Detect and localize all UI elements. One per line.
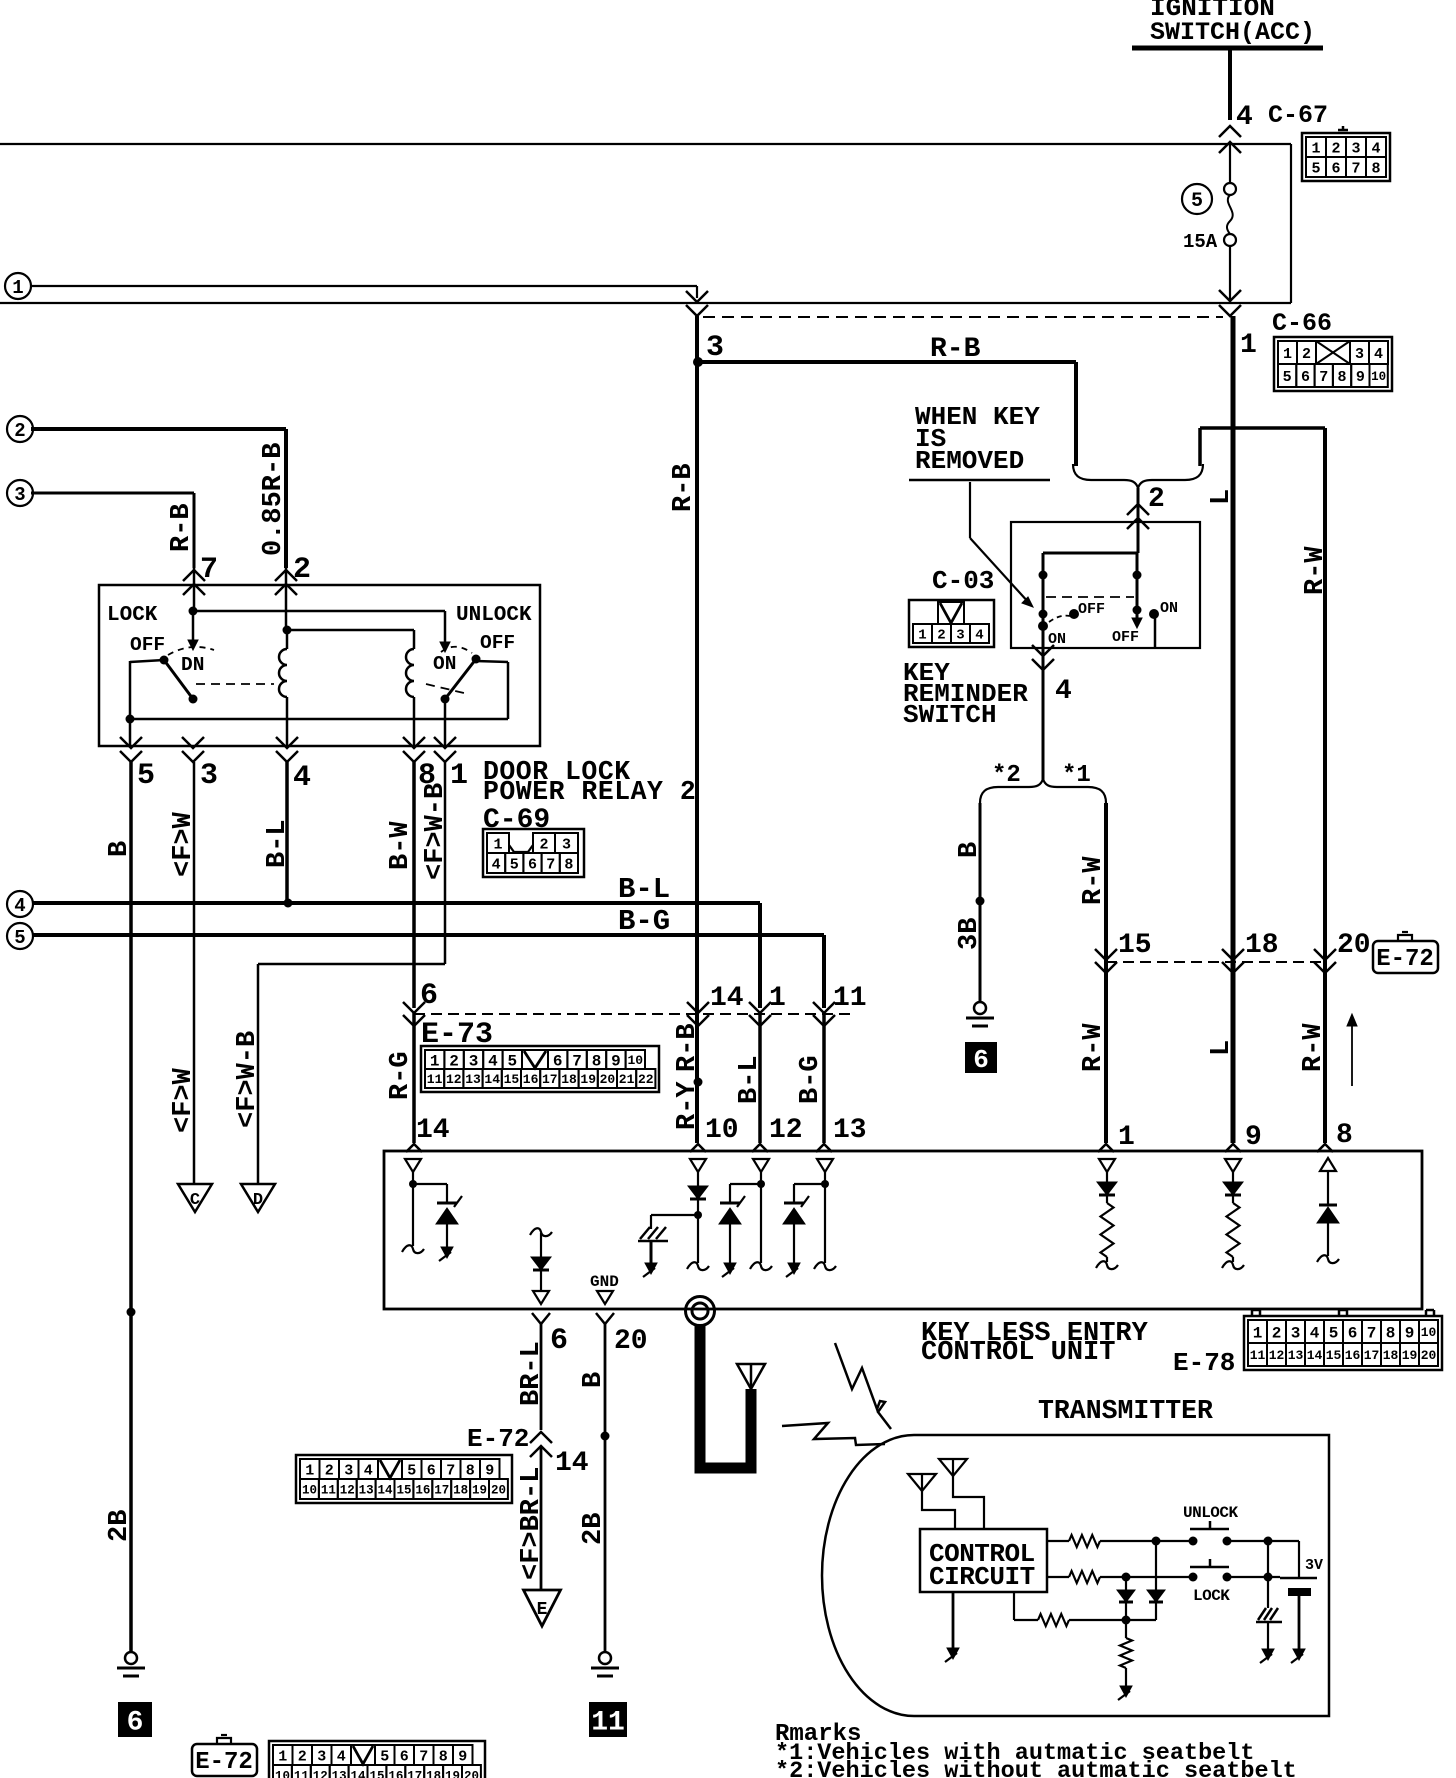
- svg-text:5: 5: [137, 759, 155, 793]
- svg-text:4: 4: [1310, 1324, 1320, 1342]
- svg-text:13: 13: [332, 1770, 347, 1778]
- svg-text:2: 2: [1302, 346, 1311, 363]
- pin 3 of relay: [182, 737, 218, 793]
- pin 14 of connector E-73: [687, 983, 744, 1026]
- svg-text:18: 18: [561, 1072, 577, 1087]
- svg-text:5: 5: [380, 1748, 389, 1765]
- svg-text:6: 6: [1331, 160, 1340, 177]
- destination arrow D: [241, 1184, 275, 1212]
- svg-text:8: 8: [1386, 1324, 1396, 1342]
- svg-text:14: 14: [1307, 1348, 1323, 1363]
- node junction pin14 internal: [409, 1180, 417, 1188]
- pin 1 of relay: [434, 737, 468, 793]
- label UNLOCK: [456, 604, 532, 627]
- svg-text:11: 11: [591, 1708, 625, 1739]
- svg-text:14: 14: [555, 1448, 589, 1479]
- svg-text:4: 4: [14, 895, 25, 917]
- pin 6 of control unit: [532, 1313, 568, 1358]
- control unit pin 12 input terminal: [750, 1159, 772, 1270]
- svg-text:9: 9: [1245, 1122, 1262, 1153]
- svg-text:3V: 3V: [1305, 1557, 1323, 1574]
- node circled 3 wire origin: [7, 480, 33, 506]
- svg-text:6: 6: [550, 1324, 568, 1358]
- svg-text:11: 11: [833, 983, 867, 1014]
- svg-text:13: 13: [465, 1072, 481, 1087]
- svg-text:B: B: [579, 1372, 609, 1388]
- svg-text:6: 6: [127, 1708, 144, 1739]
- wire fuse output to C-66 pin 1: [1219, 290, 1241, 316]
- svg-text:17: 17: [542, 1072, 558, 1087]
- node circled 4 wire origin: [7, 891, 33, 917]
- svg-text:E-72: E-72: [195, 1749, 253, 1776]
- diode output to pin 6: [530, 1228, 552, 1304]
- brace joining wires at key reminder pin 2: [1073, 464, 1203, 488]
- svg-text:14: 14: [710, 983, 744, 1014]
- svg-text:E-72: E-72: [1376, 946, 1434, 973]
- relay unlock switch: [433, 632, 515, 746]
- svg-text:OFF: OFF: [1078, 601, 1105, 618]
- svg-text:15: 15: [369, 1770, 384, 1778]
- wire F W from relay pin 3: [193, 762, 196, 1184]
- control unit pin 1 terminal: [1099, 1159, 1115, 1182]
- svg-text:1: 1: [493, 836, 502, 853]
- svg-text:14: 14: [351, 1770, 367, 1778]
- label key less entry control unit: [921, 1319, 1149, 1368]
- svg-text:REMOVED: REMOVED: [915, 446, 1024, 476]
- connector E-72 pinout upper: [296, 1455, 512, 1503]
- relay unlock coil: [406, 649, 414, 746]
- label wire B-L bus: [618, 873, 670, 906]
- wire from node 1 to C-66 pin 3: [31, 286, 697, 298]
- connector E-72 tag box lower: [192, 1735, 257, 1776]
- svg-text:R-W: R-W: [1079, 856, 1109, 905]
- node splice R-B R-Y: [694, 1078, 703, 1087]
- svg-text:UNLOCK: UNLOCK: [1183, 1504, 1239, 1522]
- pin 8 of control unit: [1317, 1120, 1353, 1152]
- node junction pin13 internal: [821, 1180, 829, 1188]
- pin 1 of connector C-66: [1240, 330, 1257, 361]
- ground for wire 2B: [117, 1652, 145, 1676]
- svg-text:8: 8: [592, 1052, 602, 1070]
- wire R-W with auto seatbelt: [1104, 803, 1108, 1143]
- label note asterisk 1: [775, 1740, 1254, 1767]
- svg-text:E-78: E-78: [1173, 1348, 1235, 1378]
- fuse number 5 circled: [1182, 184, 1212, 214]
- svg-text:E-72: E-72: [467, 1424, 529, 1454]
- pin 11 of connector E-73: [813, 983, 867, 1026]
- svg-text:9: 9: [611, 1052, 621, 1070]
- svg-text:5: 5: [1283, 369, 1292, 386]
- svg-text:17: 17: [1364, 1348, 1380, 1363]
- pin 4 of connector C-67: [1219, 102, 1253, 153]
- svg-text:11: 11: [321, 1484, 336, 1498]
- svg-text:10: 10: [275, 1770, 290, 1778]
- svg-text:4: 4: [364, 1462, 373, 1479]
- svg-text:B: B: [955, 842, 985, 858]
- label wire B relay: [105, 841, 135, 857]
- svg-text:C: C: [190, 1191, 200, 1210]
- label wire B-L relay: [263, 819, 293, 868]
- label asterisk 2 variant: [992, 762, 1021, 789]
- svg-text:2: 2: [325, 1462, 334, 1479]
- relay coil linkage dashed: [196, 684, 468, 694]
- svg-text:R-Y: R-Y: [673, 1081, 703, 1130]
- svg-text:B: B: [105, 841, 135, 857]
- svg-text:TRANSMITTER: TRANSMITTER: [1038, 1396, 1213, 1426]
- buzzer symbol internal: [638, 1215, 698, 1277]
- svg-text:5: 5: [14, 927, 25, 949]
- svg-text:7: 7: [546, 856, 555, 873]
- power source label IGNITION SWITCH (ACC): [1132, 0, 1323, 48]
- key reminder switch internal bus: [1043, 522, 1138, 553]
- connector E-73 pinout: [421, 1046, 659, 1092]
- node junction unlock diode: [1152, 1537, 1161, 1546]
- svg-text:3: 3: [200, 759, 218, 793]
- svg-text:8: 8: [1338, 369, 1347, 386]
- svg-text:<F>W-B: <F>W-B: [233, 1031, 263, 1128]
- svg-text:E: E: [537, 1600, 548, 1620]
- pin 8 of relay: [403, 737, 436, 793]
- antenna symbol on feed: [737, 1364, 765, 1389]
- svg-text:R-B: R-B: [673, 1023, 703, 1072]
- svg-text:BR-L: BR-L: [517, 1341, 547, 1406]
- svg-text:5: 5: [1329, 1324, 1339, 1342]
- svg-text:UNLOCK: UNLOCK: [456, 604, 532, 627]
- wire B-L to control unit pin 12: [758, 1013, 762, 1143]
- svg-text:2: 2: [293, 553, 311, 587]
- svg-text:<F>W-B: <F>W-B: [421, 783, 451, 880]
- svg-text:22: 22: [638, 1072, 654, 1087]
- svg-text:C-67: C-67: [1268, 101, 1328, 130]
- wire B to ground (without auto seatbelt): [979, 803, 982, 1002]
- svg-text:2: 2: [14, 420, 25, 442]
- label wire F BR-L: [517, 1467, 547, 1580]
- switch LOCK pushbutton: [1189, 1559, 1232, 1605]
- label transmitter: [1038, 1396, 1213, 1426]
- svg-text:4: 4: [337, 1748, 346, 1765]
- connector C-66 pinout: [1274, 337, 1392, 391]
- label wire F W upper: [169, 811, 199, 877]
- svg-text:8: 8: [466, 1462, 475, 1479]
- svg-text:1: 1: [1253, 1324, 1263, 1342]
- svg-text:20: 20: [600, 1072, 616, 1087]
- pin 4 of relay: [276, 737, 311, 795]
- pin 5 of relay: [120, 737, 155, 793]
- svg-text:6: 6: [528, 856, 537, 873]
- wire L from C-66 pin 1 to control unit: [1231, 316, 1236, 1143]
- pin 13 of control unit: [816, 1115, 867, 1152]
- zener diode pin 12: [719, 1184, 761, 1277]
- key reminder switch left pole throw arc: [1049, 616, 1070, 622]
- pin 15 of connector E-72: [1095, 930, 1152, 973]
- svg-text:L: L: [1207, 1040, 1237, 1056]
- pin 20 of control unit: [596, 1313, 648, 1357]
- svg-text:19: 19: [580, 1072, 596, 1087]
- svg-text:7: 7: [446, 1462, 455, 1479]
- svg-text:SWITCH: SWITCH: [903, 700, 997, 730]
- wire B from pin 20: [604, 1324, 607, 1652]
- wire ACC feed from ignition switch: [1228, 50, 1232, 120]
- control unit pin 14 input terminal: [402, 1159, 424, 1253]
- control unit pin 9 terminal: [1225, 1159, 1241, 1182]
- svg-text:8: 8: [564, 856, 573, 873]
- svg-text:6: 6: [1348, 1324, 1358, 1342]
- svg-text:3: 3: [14, 484, 25, 506]
- svg-text:19: 19: [1402, 1348, 1418, 1363]
- label connector E-78: [1173, 1348, 1235, 1378]
- svg-text:*1: *1: [1062, 762, 1091, 789]
- svg-text:*2: *2: [992, 762, 1021, 789]
- label connector E-72 inline: [467, 1424, 529, 1454]
- wire B-W from relay pin 8: [412, 762, 416, 1008]
- svg-text:ON: ON: [1160, 600, 1178, 617]
- svg-text:13: 13: [1288, 1348, 1304, 1363]
- node splice wire B 2B right: [601, 1432, 610, 1441]
- resistor unlock line: [1047, 1535, 1193, 1547]
- label note asterisk 2: [775, 1758, 1297, 1778]
- transmitter case outline: [822, 1435, 1329, 1716]
- wire lock output: [1227, 1573, 1280, 1582]
- pin 20 of connector E-72: [1314, 930, 1371, 973]
- svg-text:7: 7: [572, 1052, 582, 1070]
- svg-text:10: 10: [627, 1053, 643, 1068]
- svg-text:16: 16: [1345, 1348, 1361, 1363]
- svg-text:9: 9: [458, 1748, 467, 1765]
- label wire B pin20: [579, 1372, 609, 1388]
- key less entry control unit box: [384, 1151, 1422, 1309]
- svg-text:18: 18: [453, 1484, 468, 1498]
- svg-text:R-G: R-G: [386, 1051, 416, 1100]
- label wire B-G mid: [796, 1055, 826, 1104]
- wire 0.85R-B from node 2: [31, 429, 286, 568]
- zener diode pin 13: [783, 1184, 825, 1277]
- pin 6 of connector E-73: [403, 979, 438, 1026]
- label wire R-W upper: [1079, 856, 1109, 905]
- diode pin 8: [1317, 1205, 1339, 1263]
- relay lock switch: [130, 611, 214, 746]
- svg-text:13: 13: [833, 1115, 867, 1146]
- pin 7 of relay: [183, 553, 218, 611]
- wire R-B branch to key reminder switch: [697, 362, 1076, 466]
- buzzer transmitter: [1256, 1541, 1282, 1663]
- wire R-W from C-66 area: [1200, 428, 1325, 466]
- svg-text:B-L: B-L: [263, 819, 293, 868]
- node junction relay pin 7 bus: [189, 607, 198, 616]
- pointer arrow to switch contact: [970, 482, 1033, 607]
- svg-text:20: 20: [1337, 930, 1371, 961]
- svg-text:1: 1: [12, 277, 23, 299]
- fuse 15A: [1183, 144, 1236, 303]
- svg-text:4: 4: [492, 856, 501, 873]
- wire R-B vertical main run: [695, 316, 699, 1143]
- svg-text:15: 15: [1118, 930, 1152, 961]
- label GND internal: [590, 1273, 619, 1291]
- svg-text:12: 12: [446, 1072, 462, 1087]
- transmitter antenna 1: [908, 1474, 955, 1529]
- pin 1 of control unit: [1098, 1122, 1135, 1153]
- svg-text:2B: 2B: [105, 1510, 135, 1542]
- connector E-72 dashed in-line boundary: [1106, 961, 1327, 963]
- svg-text:7: 7: [1351, 160, 1360, 177]
- key reminder switch right pole OFF label: [1112, 629, 1139, 646]
- wire B from relay pin 5: [129, 762, 133, 1652]
- control unit pin 8 output terminal: [1320, 1158, 1336, 1205]
- svg-text:B-L: B-L: [618, 873, 670, 906]
- svg-text:B-W: B-W: [386, 821, 416, 870]
- node splice wire B 2B: [127, 1308, 136, 1317]
- svg-text:18: 18: [1383, 1348, 1399, 1363]
- label wire B-L mid: [735, 1055, 765, 1104]
- node splice on wire B: [976, 897, 985, 906]
- key reminder switch right pole ON contact: [1149, 600, 1178, 648]
- node junction R-B branch: [693, 357, 703, 367]
- pin 12 of control unit: [752, 1115, 803, 1152]
- ground for wire B pin20: [591, 1652, 619, 1676]
- svg-text:17: 17: [434, 1484, 449, 1498]
- svg-text:10: 10: [1421, 1325, 1437, 1340]
- key reminder switch left pole arm: [1038, 553, 1048, 648]
- svg-text:10: 10: [705, 1115, 739, 1146]
- transmitter antenna 2: [939, 1459, 984, 1529]
- svg-text:L: L: [1207, 489, 1237, 505]
- svg-text:R-W: R-W: [1299, 1023, 1329, 1072]
- label wire R-W right lower: [1299, 1023, 1329, 1072]
- svg-text:16: 16: [388, 1770, 403, 1778]
- svg-text:B-L: B-L: [735, 1055, 765, 1104]
- svg-text:4: 4: [1371, 140, 1380, 157]
- node junction bias resistor: [1122, 1616, 1131, 1625]
- svg-text:2: 2: [1272, 1324, 1282, 1342]
- label wire L upper: [1207, 489, 1237, 505]
- svg-text:SWITCH(ACC): SWITCH(ACC): [1150, 18, 1315, 47]
- svg-text:D: D: [253, 1191, 263, 1210]
- svg-text:14: 14: [484, 1072, 500, 1087]
- svg-text:10: 10: [1371, 370, 1386, 384]
- antenna feed line thick: [700, 1326, 751, 1468]
- svg-text:R-B: R-B: [669, 463, 699, 512]
- svg-text:OFF: OFF: [480, 632, 515, 654]
- key reminder switch right pole arm: [1132, 553, 1142, 628]
- svg-text:OFF: OFF: [1112, 629, 1139, 646]
- wire F W-B from relay pin 1: [258, 762, 445, 1184]
- svg-text:5: 5: [1311, 160, 1320, 177]
- label connector C-67: [1268, 101, 1328, 130]
- svg-text:B-G: B-G: [618, 905, 670, 938]
- svg-text:17: 17: [407, 1770, 422, 1778]
- diode pin 1: [1097, 1182, 1117, 1195]
- svg-text:11: 11: [1250, 1348, 1266, 1363]
- svg-text:12: 12: [769, 1115, 803, 1146]
- svg-text:1: 1: [1240, 330, 1257, 361]
- label wire F W-B upper: [421, 783, 451, 880]
- svg-text:6: 6: [427, 1462, 436, 1479]
- pin 4 of key reminder switch: [1032, 645, 1072, 780]
- svg-text:12: 12: [313, 1770, 328, 1778]
- label wire R-G: [386, 1051, 416, 1100]
- wire unlock output: [1227, 1537, 1299, 1546]
- resistor lock line: [1047, 1571, 1193, 1583]
- svg-text:4: 4: [488, 1052, 498, 1070]
- connector C-66 dashed in-line boundary: [703, 316, 1223, 318]
- control unit pin 10 input terminal: [690, 1159, 706, 1186]
- label wire BR-L: [517, 1341, 547, 1406]
- svg-text:3: 3: [706, 331, 724, 365]
- label wire F W-B lower: [233, 1031, 263, 1128]
- svg-text:20: 20: [614, 1326, 648, 1357]
- destination arrow E: [524, 1590, 561, 1626]
- svg-text:3: 3: [317, 1748, 326, 1765]
- svg-text:R-B: R-B: [167, 503, 197, 552]
- svg-text:LOCK: LOCK: [1193, 1587, 1230, 1605]
- svg-text:8: 8: [1371, 160, 1380, 177]
- svg-text:2: 2: [449, 1052, 459, 1070]
- wire R-B from node 3: [31, 493, 194, 568]
- label connector C-03: [932, 566, 994, 596]
- wire relay pin2 to unlock coil: [287, 630, 414, 649]
- svg-text:14: 14: [416, 1115, 450, 1146]
- svg-text:1: 1: [918, 628, 926, 644]
- antenna coax output: [686, 1297, 715, 1326]
- svg-text:9: 9: [1356, 369, 1365, 386]
- svg-text:16: 16: [415, 1484, 430, 1498]
- svg-text:9: 9: [485, 1462, 494, 1479]
- svg-text:15A: 15A: [1183, 231, 1218, 253]
- svg-text:10: 10: [302, 1484, 317, 1498]
- svg-text:5: 5: [507, 1052, 517, 1070]
- svg-text:8: 8: [439, 1748, 448, 1765]
- node junction pin10 internal: [694, 1211, 702, 1219]
- connector C-69 pinout: [483, 829, 584, 877]
- wire R-G to control unit pin 14: [412, 1013, 416, 1143]
- pin 14 of connector E-72 lower: [530, 1432, 589, 1479]
- pin 14 of control unit: [406, 1115, 450, 1152]
- control circuit box: [920, 1529, 1047, 1592]
- resistor pin 9: [1222, 1195, 1244, 1269]
- wire F BR-L to ground point E: [540, 1446, 543, 1590]
- svg-text:20: 20: [1421, 1348, 1437, 1363]
- svg-text:R-W: R-W: [1301, 546, 1331, 595]
- pin 18 of connector E-72: [1222, 930, 1279, 973]
- connector C-67 pinout: [1302, 126, 1390, 181]
- svg-text:3: 3: [1351, 140, 1360, 157]
- label wire L lower: [1207, 1040, 1237, 1056]
- zener diode pin 14 protection: [413, 1184, 462, 1261]
- connector E-72 pinout lower: [269, 1741, 485, 1778]
- label door lock power relay 2: [483, 757, 696, 836]
- svg-text:7: 7: [1367, 1324, 1377, 1342]
- label wire R-B vertical: [669, 463, 699, 512]
- svg-text:1: 1: [1118, 1122, 1135, 1153]
- label key reminder switch: [903, 658, 1028, 730]
- svg-text:DN: DN: [181, 654, 204, 676]
- svg-text:19: 19: [445, 1770, 460, 1778]
- label wire R-B horizontal: [930, 334, 981, 365]
- diode pin 10: [687, 1186, 709, 1270]
- label wire R-Y: [673, 1081, 703, 1130]
- signal direction arrow: [1347, 1014, 1357, 1086]
- svg-text:3: 3: [469, 1052, 479, 1070]
- junction block bus region: [0, 144, 1291, 303]
- node circled 2 wire origin: [7, 416, 33, 442]
- svg-text:1: 1: [769, 983, 786, 1014]
- node circled 1 wire origin: [5, 273, 31, 299]
- svg-text:3: 3: [956, 628, 964, 644]
- connector E-73 dashed in-line boundary: [414, 1013, 850, 1015]
- control unit pin 20 terminal: [597, 1291, 613, 1304]
- svg-text:CONTROL UNIT: CONTROL UNIT: [921, 1338, 1115, 1368]
- svg-text:6: 6: [1301, 369, 1310, 386]
- svg-text:OFF: OFF: [130, 634, 165, 656]
